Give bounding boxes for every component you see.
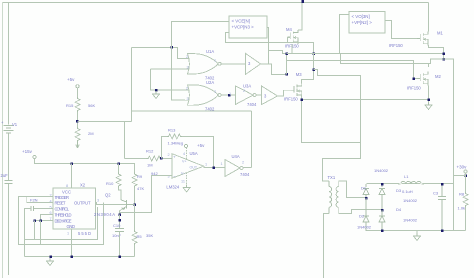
wire VCE box lower-left pin to M4 gate — [226, 33, 295, 43]
svg-text:1.0k: 1.0k — [458, 206, 466, 211]
svg-text:4: 4 — [183, 152, 185, 156]
potentiometer R14 2M — [75, 127, 80, 142]
node gnd — [155, 89, 158, 92]
node bridge B mid — [381, 209, 384, 212]
svg-text:11: 11 — [181, 180, 185, 184]
svg-text:2uF: 2uF — [1, 173, 9, 178]
wire +15V bus — [35, 159, 135, 173]
svg-text:VCC: VCC — [62, 190, 71, 195]
wire R9 to base node — [134, 188, 136, 205]
node switch 2 — [442, 58, 445, 61]
svg-text:+VCP[N3 >: +VCP[N3 > — [232, 25, 255, 30]
wire secondary top to bridge — [339, 181, 367, 198]
transformer primary winding — [328, 181, 330, 214]
svg-text:7404: 7404 — [240, 172, 250, 177]
capacitor C10 — [115, 229, 124, 232]
transformer secondary winding — [338, 181, 340, 214]
wire bottom bus — [367, 230, 466, 232]
wire op-amp minus input — [120, 176, 172, 215]
node — [228, 94, 231, 97]
mosfet M3 — [291, 83, 302, 97]
svg-text:U5A: U5A — [190, 151, 198, 156]
node on top rail — [301, 0, 304, 3]
block VCE/VCP — [229, 16, 267, 38]
node — [312, 68, 315, 71]
svg-text:IRF150: IRF150 — [284, 97, 298, 102]
mosfet M4 — [287, 30, 298, 44]
node C — [285, 73, 288, 76]
node M2 gate — [412, 77, 415, 80]
svg-text:1: 1 — [229, 92, 231, 96]
svg-text:OUTPUT: OUTPUT — [74, 200, 91, 205]
node discharge 1 — [39, 219, 42, 222]
svg-text:1.34Meg: 1.34Meg — [168, 141, 184, 146]
wire M2 drain tap — [428, 64, 430, 68]
power port +5V op-amp — [184, 144, 187, 147]
node C3 bottom — [441, 230, 444, 233]
wire gate net continues to node 2 — [295, 43, 314, 54]
svg-text:2N3904A: 2N3904A — [94, 212, 115, 217]
wire trigger loop — [19, 197, 104, 245]
svg-text:GND: GND — [67, 224, 76, 229]
resistor R10 — [118, 164, 120, 173]
svg-text:−: − — [173, 174, 176, 179]
wire M4 source drop to node — [291, 44, 293, 54]
node +30V — [464, 174, 467, 177]
svg-text:X2: X2 — [80, 182, 86, 187]
wire emitter node down — [119, 215, 121, 229]
diode D2 — [363, 198, 369, 231]
wire — [77, 88, 79, 97]
wire M1 source to switch node — [429, 45, 444, 59]
wire R10 to Q2 collector — [119, 188, 122, 201]
svg-text:R8: R8 — [459, 192, 465, 197]
svg-text:2: 2 — [243, 89, 245, 93]
resistor R13 feedback — [162, 137, 168, 159]
svg-text:2M: 2M — [88, 131, 94, 136]
svg-text:V1: V1 — [12, 122, 18, 127]
svg-text:R5: R5 — [137, 234, 143, 239]
svg-text:1: 1 — [205, 163, 207, 167]
svg-text:< VCE[N]: < VCE[N] — [232, 19, 250, 24]
wire U2A out to inverter — [223, 94, 236, 96]
svg-text:D1: D1 — [361, 186, 367, 191]
svg-text:R10: R10 — [106, 181, 114, 186]
wire node A to node C vertical — [286, 54, 288, 75]
svg-text:IRF150: IRF150 — [407, 86, 421, 91]
svg-text:THRESHOLD: THRESHOLD — [55, 213, 72, 218]
node base — [133, 203, 136, 206]
svg-text:R13: R13 — [168, 128, 176, 133]
svg-text:1N4002: 1N4002 — [403, 218, 418, 223]
svg-text:V+: V+ — [182, 160, 187, 164]
node bus c10 — [118, 255, 121, 257]
sheet border left — [2, 3, 4, 278]
svg-text:D3: D3 — [396, 188, 402, 193]
node discharge 2 — [33, 219, 36, 222]
svg-text:M4: M4 — [286, 27, 292, 32]
mosfet M1 — [417, 32, 428, 46]
resistor R5 — [134, 205, 136, 231]
mosfet M2 — [417, 72, 428, 86]
svg-text:< VO[3N]: < VO[3N] — [352, 14, 370, 19]
svg-text:942: 942 — [151, 171, 158, 176]
svg-text:47K: 47K — [137, 186, 144, 191]
wire U1A out to buffer — [223, 63, 246, 65]
ground rectifier — [416, 231, 418, 233]
555 box X2 — [53, 188, 96, 229]
svg-text:+5v: +5v — [67, 77, 75, 82]
svg-text:56K: 56K — [88, 103, 95, 108]
wire op-amp out to U4A — [204, 167, 225, 169]
svg-text:C3: C3 — [433, 191, 439, 196]
svg-text:10nF: 10nF — [112, 233, 122, 238]
svg-text:35K: 35K — [146, 233, 153, 238]
wire VCE box right pin down — [267, 28, 287, 64]
ground bus — [47, 258, 54, 266]
wire gnd net to U1A pin3 — [151, 69, 186, 90]
svg-text:RESET: RESET — [55, 201, 66, 206]
capacitor C3 — [438, 184, 446, 231]
svg-text:U4A: U4A — [232, 154, 240, 159]
node R10 tap — [117, 162, 120, 165]
wire 555 output — [96, 203, 127, 205]
wire battery branch — [8, 3, 10, 276]
wire reset — [27, 197, 53, 203]
svg-text:U1A: U1A — [206, 49, 214, 54]
svg-text:+VP[N2] >: +VP[N2] > — [352, 20, 373, 25]
wire buffer node to M2-gate long wire — [287, 61, 418, 79]
diode D1 — [363, 184, 369, 198]
wire long horizontal y=119.5 — [78, 122, 132, 159]
node 555 vcc tap — [70, 162, 73, 165]
wire from nodes down — [35, 221, 41, 245]
node bridge B bottom — [381, 230, 384, 233]
wire + wiper arrow — [76, 142, 79, 148]
op-amp U5A LM324 — [172, 154, 204, 179]
wire U1A pin2 feed — [132, 48, 186, 59]
inductor L1 — [401, 181, 422, 184]
svg-text:+5v: +5v — [197, 143, 205, 148]
wire gates loop vertical — [132, 48, 252, 122]
diode D4 — [379, 210, 385, 231]
svg-text:7404: 7404 — [247, 102, 257, 107]
svg-text:1N4002: 1N4002 — [403, 198, 418, 203]
svg-text:+: + — [173, 155, 176, 160]
nor gate U1A — [185, 54, 223, 74]
svg-text:555D: 555D — [78, 231, 91, 236]
svg-text:M3: M3 — [296, 72, 302, 77]
node emitter — [118, 213, 121, 216]
node M2 source — [427, 98, 430, 101]
svg-text:2: 2 — [168, 153, 170, 157]
svg-text:D4: D4 — [396, 207, 402, 212]
wire to M3 gate — [278, 90, 295, 96]
svg-text:LM324: LM324 — [166, 185, 179, 190]
wire switch node to right vertical rail — [444, 59, 454, 231]
ground op-amp V- — [186, 173, 188, 185]
battery V1 — [4, 126, 14, 134]
block VO/VP — [349, 12, 385, 34]
svg-text:2: 2 — [242, 161, 244, 165]
wire Q2 emitter down — [120, 209, 122, 214]
ground M2 — [425, 102, 432, 110]
svg-text:U2A: U2A — [206, 80, 214, 85]
top rail wire — [3, 2, 429, 4]
wire primary bottom to sheet bottom — [324, 214, 330, 278]
node bridge A mid — [365, 197, 368, 200]
capacitor control — [31, 206, 34, 211]
svg-text:2: 2 — [186, 86, 188, 90]
svg-text:8: 8 — [66, 184, 68, 188]
svg-text:U3A: U3A — [243, 84, 251, 89]
wire 555 gnd — [71, 229, 73, 257]
wire U4A out up — [243, 167, 252, 169]
node switch 1 — [442, 52, 445, 55]
node divider junction — [76, 120, 79, 123]
svg-text:F2N: F2N — [30, 198, 38, 203]
wire 555 vcc — [71, 164, 73, 189]
wire — [256, 94, 262, 96]
transistor Q2 — [121, 200, 135, 210]
svg-text:1: 1 — [214, 90, 216, 94]
svg-text:C10: C10 — [113, 223, 121, 228]
wire VCE box feed vertical — [172, 22, 230, 48]
wire +30V to right rail — [454, 173, 466, 176]
wire VO box right pin to M1 gate — [385, 21, 417, 39]
wire discharge — [35, 220, 54, 222]
node bridge B top — [381, 183, 384, 186]
svg-text:DISCHARGE: DISCHARGE — [55, 218, 72, 223]
svg-text:TX1: TX1 — [328, 175, 336, 180]
wire — [77, 112, 79, 127]
wire loop branch x=340 down to y=63.5 and across to switch node — [341, 54, 444, 64]
wire top bus — [367, 183, 454, 185]
wire U4A output vertical — [251, 111, 253, 168]
capacitor plates on left wire — [5, 181, 13, 184]
svg-text:1N4002: 1N4002 — [374, 168, 389, 173]
svg-text:1: 1 — [221, 162, 223, 166]
svg-text:1: 1 — [67, 232, 69, 236]
svg-text:TRIGGER: TRIGGER — [55, 195, 70, 200]
svg-text:IRF150: IRF150 — [389, 43, 403, 48]
wire M4 drain to top rail — [298, 3, 302, 30]
svg-text:3: 3 — [187, 97, 189, 101]
wire M1 drain to top rail — [428, 3, 430, 32]
node bus gnd — [49, 255, 52, 257]
svg-text:OUT: OUT — [190, 166, 198, 170]
wire buffer1 out to node C — [261, 64, 287, 75]
wire VO box bottom pin to switch node — [340, 15, 444, 54]
resistor R9 — [132, 173, 137, 188]
inverter U4A 7404 — [225, 160, 240, 177]
resistor R15 56K — [75, 97, 80, 112]
buffer triangle 2 — [262, 86, 278, 105]
wire control with capacitor — [34, 207, 53, 209]
svg-text:3: 3 — [97, 199, 99, 203]
node — [212, 167, 215, 170]
svg-text:7402: 7402 — [205, 106, 215, 111]
svg-text:2: 2 — [186, 55, 188, 59]
nor gate U2A — [185, 85, 223, 105]
wire threshold — [41, 215, 54, 221]
svg-text:R9: R9 — [137, 174, 143, 179]
node — [171, 46, 174, 49]
svg-text:+15v: +15v — [22, 149, 33, 154]
node op-amp plus input — [160, 157, 163, 160]
resistor R12 — [125, 158, 147, 160]
svg-text:1N4002: 1N4002 — [357, 225, 372, 230]
wire secondary bottom to bridge — [339, 210, 383, 214]
svg-text:M1: M1 — [437, 31, 443, 36]
svg-text:0.1uH: 0.1uH — [402, 189, 413, 194]
node C3 top — [441, 183, 444, 186]
wire M4 source node down to M3 drain — [302, 54, 314, 84]
wire U2A pin3 feed — [172, 48, 186, 101]
svg-text:R15: R15 — [66, 103, 74, 108]
svg-text:+30v: +30v — [457, 165, 468, 170]
svg-text:D2: D2 — [359, 214, 365, 219]
svg-text:1: 1 — [214, 59, 216, 63]
bottom gnd bus — [25, 240, 135, 257]
ground — [153, 91, 160, 99]
node — [118, 219, 121, 222]
wire M3 source down and right to M2 source — [302, 95, 429, 143]
svg-text:L1: L1 — [404, 174, 409, 179]
wire from node to TX primary top — [314, 70, 361, 182]
svg-text:Q2: Q2 — [105, 193, 111, 198]
svg-text:V−: V− — [181, 172, 186, 176]
wire M4 gate riser — [288, 38, 291, 43]
wire M2 source to ground — [428, 86, 430, 103]
diode D3 — [379, 184, 385, 210]
svg-text:M2: M2 — [435, 74, 441, 79]
wire R12 to op-amp — [162, 158, 172, 160]
svg-text:1M: 1M — [147, 163, 153, 168]
inverter U3A 7404 — [235, 86, 253, 105]
node M3 source — [300, 98, 303, 101]
svg-text:3: 3 — [187, 66, 189, 70]
node M4 source — [285, 52, 288, 55]
resistor R8 load — [465, 176, 467, 193]
svg-text:CONTROL: CONTROL — [55, 207, 70, 212]
svg-text:R12: R12 — [146, 149, 154, 154]
buffer U6A triangle — [246, 53, 261, 74]
